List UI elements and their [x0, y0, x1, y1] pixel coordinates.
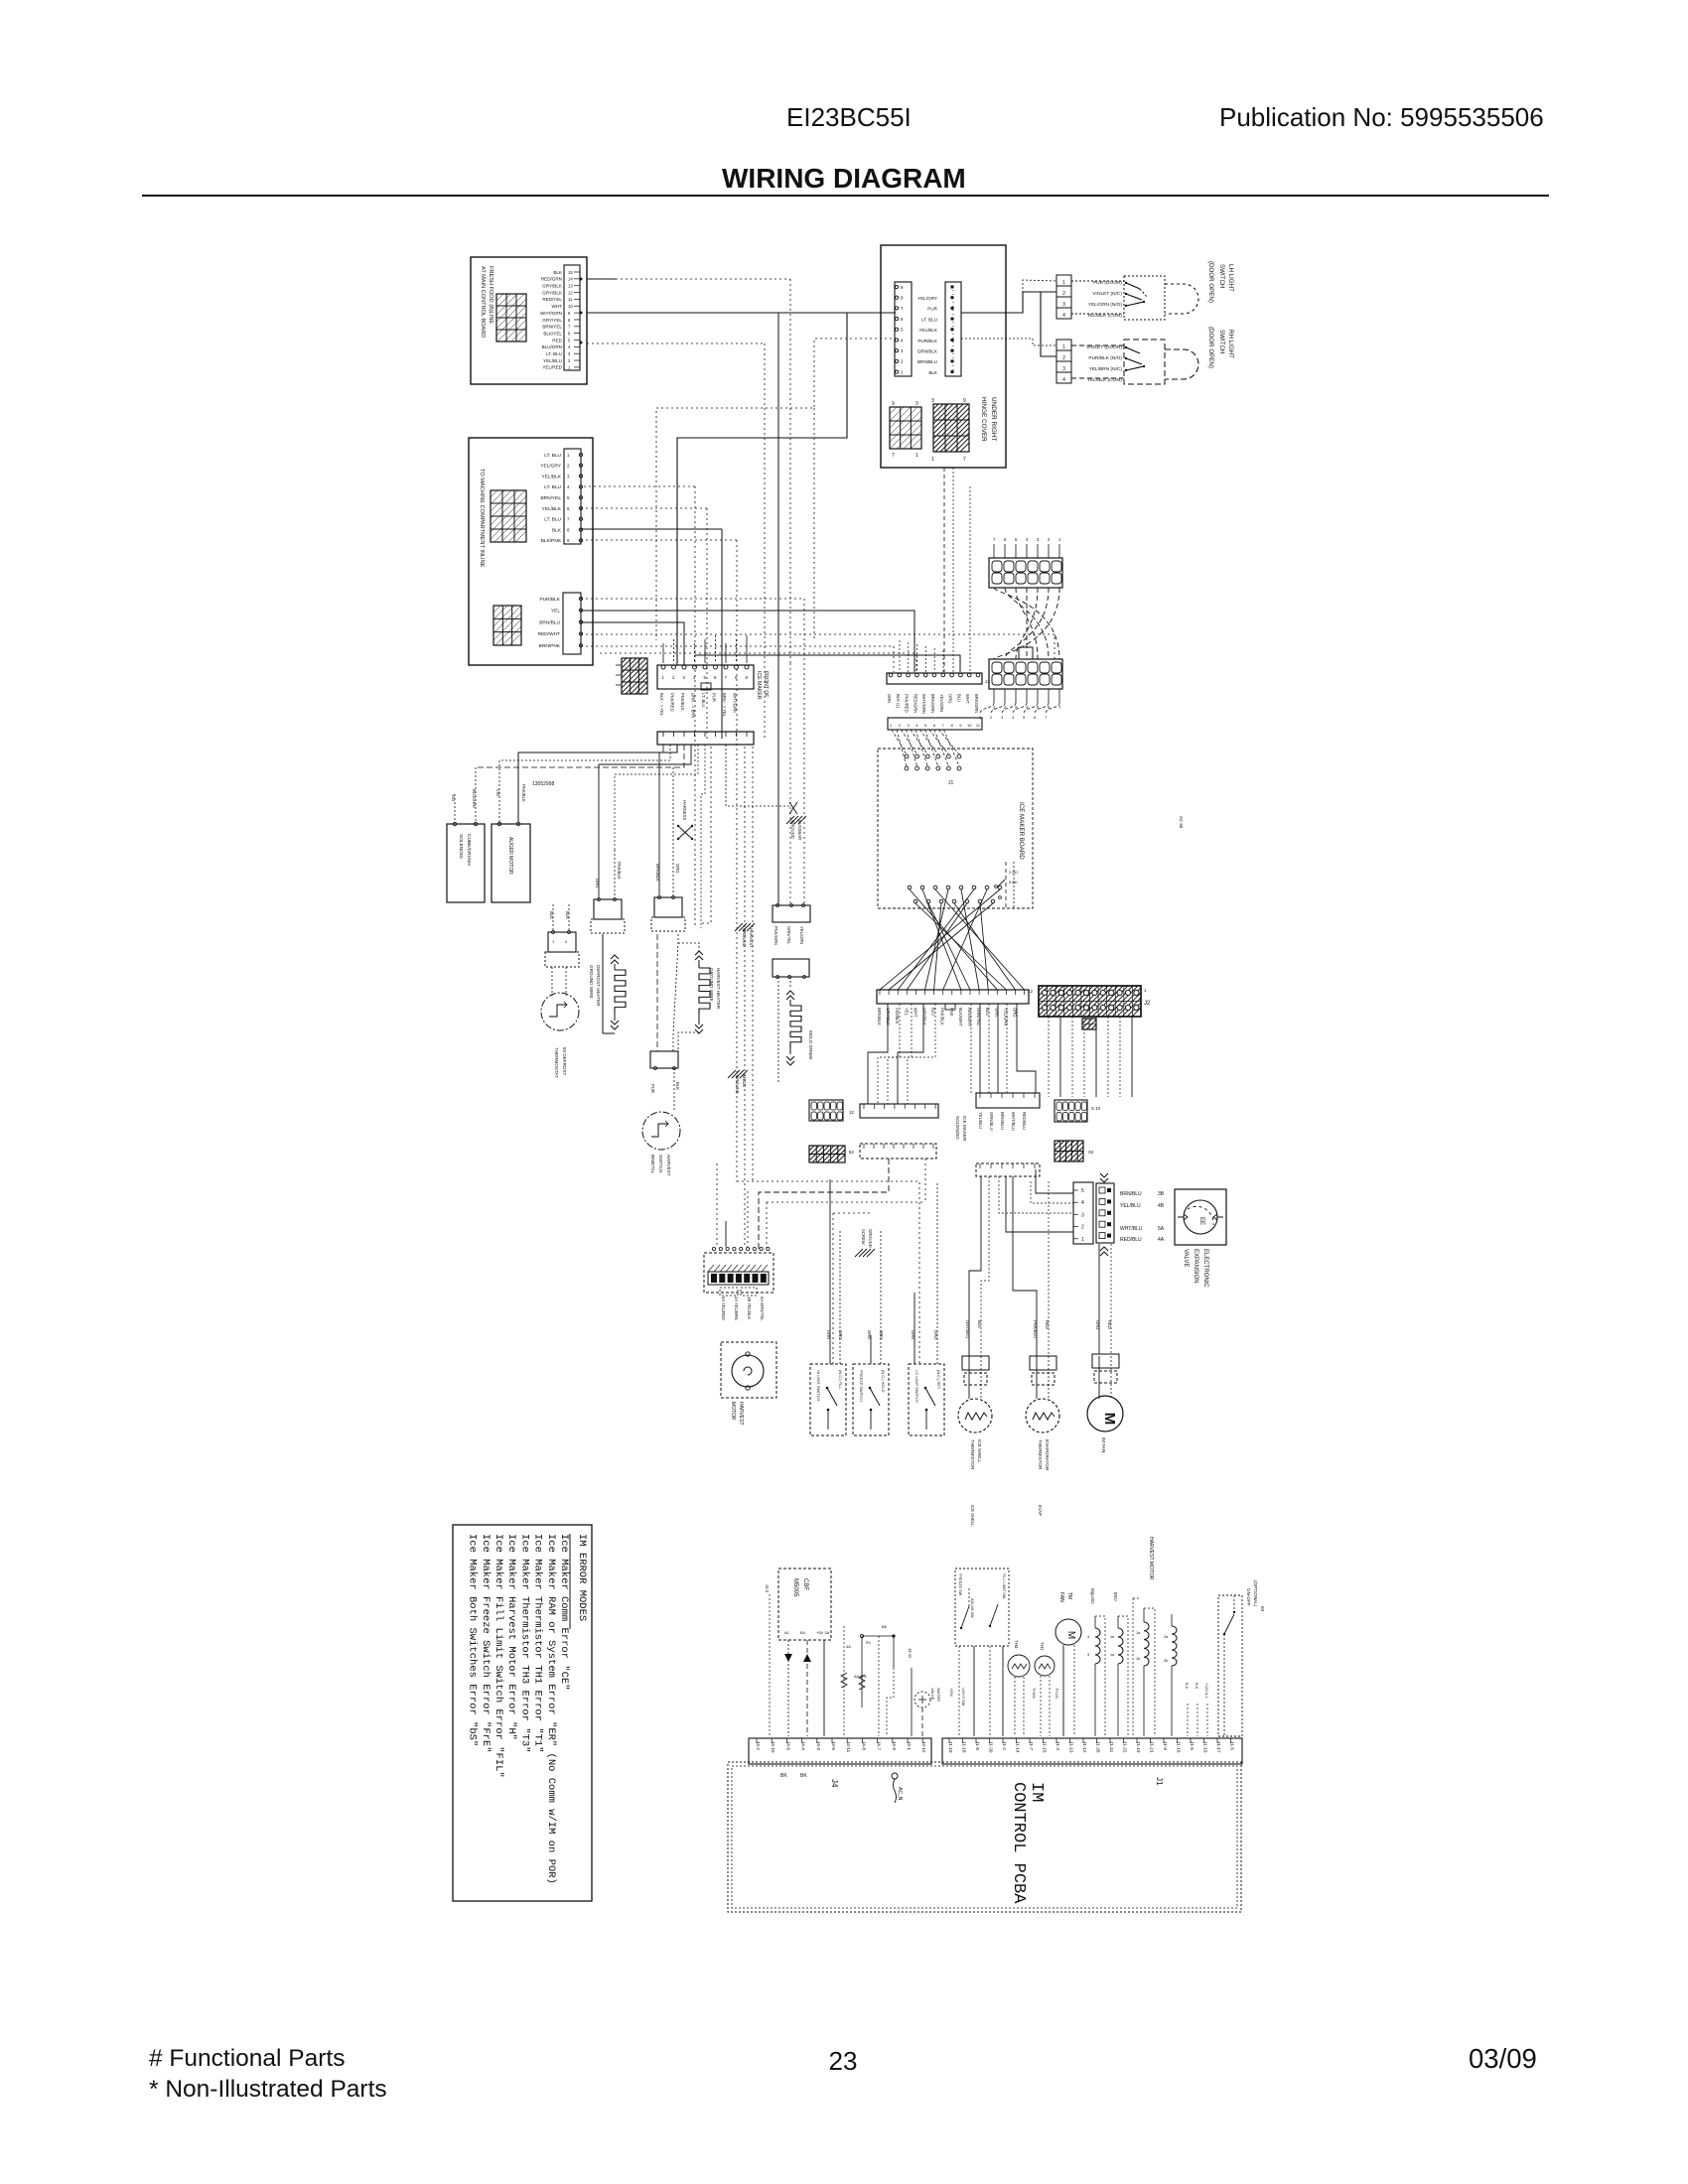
wire mid horizontal dotted y1211	[767, 1201, 925, 1203]
svg-text:GROUND: GROUND	[790, 820, 795, 839]
svg-text:J1-7: J1-7	[1029, 1741, 1034, 1750]
svg-text:TO MACHINE COMPARTMENT INLINE: TO MACHINE COMPARTMENT INLINE	[479, 469, 485, 568]
svg-text:4: 4	[1062, 313, 1065, 319]
wire trunk x716 dotted	[701, 747, 711, 923]
svg-text:GRN/BLK: GRN/BLK	[917, 349, 938, 354]
svg-text:RED: RED	[1107, 1320, 1112, 1329]
svg-text:LO LIMIT SWITCH: LO LIMIT SWITCH	[914, 1370, 919, 1403]
wire harvest motor feeds	[716, 1163, 718, 1247]
svg-text:ICE MAKER BOARD: ICE MAKER BOARD	[1018, 802, 1025, 860]
svg-text:MOLD GR500: MOLD GR500	[808, 1030, 813, 1060]
svg-text:3: 3	[1081, 1212, 1084, 1218]
ground bussbar	[789, 802, 797, 814]
svg-text:GRY/BLK: GRY/BLK	[886, 1008, 891, 1025]
svg-text:(DOOR OPEN): (DOOR OPEN)	[1207, 327, 1214, 368]
svg-text:SWITCH: SWITCH	[658, 1155, 663, 1172]
connector icon J-MC 3x4 plug	[491, 490, 526, 542]
svg-text:PUR/BLK: PUR/BLK	[917, 339, 938, 343]
svg-text:AC_N: AC_N	[897, 1787, 903, 1801]
svg-text:6A GRN/YEL: 6A GRN/YEL	[760, 1297, 765, 1321]
svg-text:J1-11: J1-11	[1109, 1741, 1114, 1753]
svg-text:Ice Maker Harvest Motor Error: Ice Maker Harvest Motor Error "H"	[505, 1534, 517, 1740]
wire solid y660 to strip I	[695, 655, 960, 672]
svg-text:TM: TM	[1066, 1592, 1072, 1599]
wire branch x784 solid down	[777, 313, 779, 905]
svg-text:RED: RED	[1045, 1320, 1050, 1329]
svg-text:BRN/BLU: BRN/BLU	[917, 359, 937, 364]
svg-text:4B: 4B	[1158, 1203, 1165, 1209]
wire to IM fan	[1098, 1244, 1100, 1354]
svg-text:4A: 4A	[1158, 1237, 1165, 1243]
svg-text:M: M	[1065, 1631, 1076, 1639]
svg-text:PNK/RED: PNK/RED	[905, 694, 910, 713]
svg-text:SWITCH: SWITCH	[1218, 264, 1225, 288]
svg-text:AUGER MOTOR: AUGER MOTOR	[507, 837, 513, 875]
svg-text:PUR: PUR	[712, 693, 717, 702]
connector HM pin row	[712, 1247, 715, 1250]
svg-text:BLU/GRN: BLU/GRN	[542, 344, 562, 349]
svg-text:ICE SHELL: ICE SHELL	[977, 1439, 982, 1463]
svg-text:HARVEST: HARVEST	[738, 1402, 744, 1426]
switch fill sensor inside board	[995, 886, 998, 888]
svg-text:J4-7: J4-7	[877, 1741, 882, 1750]
svg-text:5A YEL/RED: 5A YEL/RED	[721, 1297, 726, 1320]
svg-text:YEL/RED: YEL/RED	[542, 365, 562, 370]
svg-text:2: 2	[1062, 291, 1065, 297]
wire K drops to S3	[970, 1004, 972, 1093]
svg-text:TH1: TH1	[1040, 1642, 1045, 1651]
wire H2 to cube dashed	[476, 745, 684, 767]
wire harvest heater feed	[701, 745, 705, 928]
wire leads harvest relay	[658, 752, 660, 895]
svg-text:PNK/RED: PNK/RED	[670, 693, 675, 712]
svg-text:J1-6: J1-6	[1190, 1741, 1195, 1750]
svg-text:GRN: GRN	[867, 1330, 872, 1339]
svg-text:SOLENOID: SOLENOID	[955, 1116, 960, 1140]
connector R1 inline 12-pos upper	[989, 558, 1062, 588]
svg-text:AT MAIN CONTROL BOARD: AT MAIN CONTROL BOARD	[480, 266, 486, 338]
svg-text:PNK/BLK: PNK/BLK	[521, 784, 526, 802]
svg-text:YEL/BLU: YEL/BLU	[978, 1112, 983, 1129]
wire B2 pin4 long dotted y639	[581, 634, 1055, 659]
svg-text:YEL/BLK: YEL/BLK	[542, 474, 562, 479]
lamp LH door lamp capsule	[1165, 284, 1198, 314]
heater harvest element	[678, 943, 699, 951]
svg-text:+25V: +25V	[949, 1688, 953, 1697]
svg-text:3: 3	[1062, 302, 1065, 308]
svg-text:GRN/BLU: GRN/BLU	[989, 1112, 994, 1131]
svg-text:GROUND: GROUND	[735, 1075, 740, 1094]
svg-text:ORG: ORG	[1095, 1320, 1100, 1330]
connector R4 5x2 plug dark	[1055, 1141, 1083, 1161]
svg-text:YEL: YEL	[551, 609, 560, 614]
svg-text:(N.O.) FILL: (N.O.) FILL	[838, 1370, 843, 1390]
inductor MgU	[1095, 1628, 1100, 1664]
inductor harvest motor winding 2	[1172, 1626, 1177, 1666]
wire H2 drops left	[662, 745, 664, 752]
svg-text:PUR/BLK: PUR/BLK	[539, 597, 560, 603]
connector EEV pin box	[1073, 1182, 1093, 1244]
svg-text:J4-5: J4-5	[831, 1741, 836, 1750]
svg-text:GROUND WIRE: GROUND WIRE	[709, 968, 714, 1002]
svg-text:EEV: EEV	[1113, 1592, 1118, 1602]
svg-text:WHT/BLU: WHT/BLU	[1120, 1226, 1143, 1232]
svg-text:FAN: FAN	[1058, 1592, 1064, 1602]
svg-text:BRN/BLU: BRN/BLU	[539, 619, 560, 625]
connector icon J-FF 4x3 plug	[496, 294, 526, 341]
svg-text:BRN/BLU: BRN/BLU	[1000, 1112, 1005, 1130]
terminal block mold heater lower	[773, 959, 809, 977]
svg-text:AA15%: AA15%	[854, 1675, 867, 1679]
svg-text:5A: 5A	[1158, 1226, 1165, 1232]
wire B2 pin3 solid to H1	[581, 622, 684, 665]
switch SW-LH light switch contacts	[1124, 276, 1165, 320]
svg-text:J1-16: J1-16	[1177, 1741, 1182, 1753]
svg-text:CBF: CBF	[802, 1578, 808, 1590]
svg-text:J1-9: J1-9	[1163, 1741, 1168, 1750]
svg-text:EE: EE	[1198, 1217, 1204, 1225]
terminal strip TS1 light switch 1	[1056, 275, 1071, 286]
svg-text:EI23BC55I: EI23BC55I	[786, 102, 912, 132]
svg-text:IM: IM	[1027, 1782, 1046, 1802]
svg-text:Ice Maker Thermistor TH3 Error: Ice Maker Thermistor TH3 Error "T3"	[518, 1534, 530, 1753]
wire bussbar feeds	[726, 745, 789, 806]
wire spare leads right	[1187, 1704, 1189, 1736]
ground mold	[728, 1070, 736, 1078]
svg-text:3: 3	[1062, 366, 1065, 372]
svg-text:BLU/GRN: BLU/GRN	[472, 789, 477, 808]
connector icon P3 6-pin plug	[890, 407, 921, 449]
svg-text:J2: J2	[1144, 1001, 1151, 1007]
switch block fill freeze	[955, 1569, 1009, 1646]
wire to evap thermistor	[1013, 1176, 1037, 1356]
svg-text:ELECTRONIC: ELECTRONIC	[1202, 1249, 1208, 1288]
svg-text:A1: A1	[784, 1630, 790, 1635]
svg-text:YEL/BLU: YEL/BLU	[1120, 1203, 1141, 1209]
wire hinge cover drops to strip I	[943, 468, 945, 672]
svg-text:13052998: 13052998	[532, 781, 554, 787]
svg-text:Ice Maker Comm Error "CE": Ice Maker Comm Error "CE"	[558, 1534, 570, 1691]
thermostat harvest bimetal	[642, 1112, 680, 1150]
svg-text:YEL/BLK: YEL/BLK	[918, 328, 938, 333]
svg-text:5 BK: 5 BK	[1009, 880, 1018, 885]
svg-text:VIO: VIO	[495, 789, 500, 797]
svg-text:HINGE COVER: HINGE COVER	[980, 397, 987, 442]
svg-text:YEL/BRN (N/C): YEL/BRN (N/C)	[1089, 366, 1123, 372]
solenoid cube crush	[447, 824, 485, 902]
svg-text:VIOLET (N/C): VIOLET (N/C)	[1092, 291, 1122, 297]
svg-text:YEL: YEL	[904, 1008, 909, 1017]
wire K right end to S3	[1017, 1004, 1036, 1093]
svg-text:9: 9	[892, 401, 895, 407]
svg-text:SCREW: SCREW	[861, 1229, 866, 1245]
svg-text:BLK/PNK: BLK/PNK	[541, 538, 562, 544]
svg-text:1: 1	[1081, 1237, 1084, 1243]
svg-text:PNK: PNK	[949, 1008, 954, 1017]
connector R1 pin stubs	[993, 544, 995, 558]
svg-text:J1-20: J1-20	[989, 1741, 994, 1753]
wire leads to switches	[829, 1179, 831, 1364]
svg-text:LT. BLU: LT. BLU	[544, 484, 561, 490]
connector block P2 to machine compartment inline	[469, 438, 593, 665]
wire C pin4 dotted route	[656, 339, 897, 640]
connector HM dashed housing	[704, 1253, 774, 1293]
svg-text:YEL/BLU: YEL/BLU	[543, 358, 562, 363]
svg-text:12: 12	[1028, 989, 1033, 994]
svg-text:ASLNB SW: ASLNB SW	[970, 1598, 974, 1618]
svg-text:PUR: PUR	[927, 307, 937, 312]
svg-text:WHT/GRN: WHT/GRN	[540, 311, 562, 316]
wire H2 to auger	[518, 745, 677, 822]
svg-text:BLK (L): BLK (L)	[896, 694, 901, 709]
wire drops R2 to ice maker harness	[980, 703, 994, 714]
wire TS2 to SW-RH	[1071, 344, 1124, 346]
thermistor TH3 small	[1008, 1655, 1030, 1677]
motor TM fan symbol	[1055, 1619, 1081, 1645]
svg-text:9: 9	[963, 398, 966, 404]
svg-text:23: 23	[829, 2046, 858, 2076]
svg-text:HI LIMIT SWITCH: HI LIMIT SWITCH	[816, 1370, 821, 1401]
svg-text:FRONT OF: FRONT OF	[763, 671, 769, 697]
harvest motor symbol	[721, 1342, 776, 1398]
valve water symbol	[914, 1692, 930, 1707]
svg-text:WHT: WHT	[552, 304, 563, 309]
connector H1 front of ice maker header	[657, 665, 754, 689]
wire TS1 to SW-LH	[1071, 280, 1124, 282]
wire CBF +5V	[823, 1640, 825, 1736]
svg-text:2: 2	[1062, 355, 1065, 361]
svg-text:LT. BLU: LT. BLU	[544, 453, 561, 459]
svg-text:BRN - > YEL: BRN - > YEL	[722, 693, 727, 718]
svg-text:YEL/GRN: YEL/GRN	[799, 926, 804, 944]
svg-text:TH1/B: TH1/B	[1055, 1688, 1058, 1699]
connector P4 strip on PCBA	[749, 1738, 931, 1764]
ice maker board top pin rows	[905, 754, 909, 758]
svg-text:(DOOR OPEN): (DOOR OPEN)	[1207, 261, 1214, 303]
wire bundle R1 to R2 crossover	[994, 588, 1059, 659]
svg-text:WHT: WHT	[913, 1008, 917, 1018]
svg-text:J1-14: J1-14	[1016, 1741, 1021, 1753]
table IM error modes	[453, 1525, 592, 1901]
connector EEV mating 5-pos	[1096, 1183, 1114, 1243]
ice maker board bottom pin rows	[908, 886, 912, 889]
resistor network R10	[843, 1626, 845, 1736]
wire dotted drops to strip I pins	[899, 640, 901, 672]
wire fan board to strip K crossover	[910, 889, 997, 990]
wire trunk x700 dotted	[694, 486, 696, 928]
svg-text:EXPANSION: EXPANSION	[1193, 1249, 1198, 1284]
svg-text:GRN: GRN	[826, 1330, 831, 1339]
svg-text:J4-11: J4-11	[908, 1648, 913, 1659]
svg-text:GRY/BLK: GRY/BLK	[922, 1008, 927, 1025]
svg-text:R1: R1	[866, 1640, 872, 1645]
svg-text:+12V A-1: +12V A-1	[1204, 1683, 1208, 1699]
svg-text:(N.C.) RET: (N.C.) RET	[936, 1370, 941, 1390]
svg-text:(N.O.) HOLD: (N.O.) HOLD	[881, 1370, 886, 1393]
switch harvest limit	[909, 1364, 944, 1435]
svg-text:HARVEST HEATER: HARVEST HEATER	[716, 968, 721, 1010]
svg-text:Ice Maker RAM or System Error: Ice Maker RAM or System Error "ER" (No C…	[545, 1534, 557, 1884]
svg-text:3: 3	[1087, 1653, 1089, 1657]
svg-text:TH3: TH3	[1014, 1640, 1019, 1649]
svg-text:GRN/YEL: GRN/YEL	[786, 926, 791, 945]
terminal block mold heater upper	[773, 905, 810, 922]
svg-text:S2: S2	[1088, 1150, 1094, 1155]
ground harvest	[735, 923, 743, 931]
svg-text:UNDER RIGHT: UNDER RIGHT	[990, 397, 997, 441]
junction harness splice	[678, 826, 692, 839]
svg-text:1: 1	[1062, 344, 1065, 350]
svg-text:S 10: S 10	[1091, 1106, 1101, 1111]
svg-text:10: 10	[568, 304, 573, 309]
svg-text:2A YEL/BRN: 2A YEL/BRN	[734, 1297, 739, 1320]
svg-text:7: 7	[963, 457, 966, 463]
svg-text:1: 1	[1062, 280, 1065, 286]
svg-text:BRN/BLK: BRN/BLK	[877, 1008, 882, 1025]
board IM control PCBA outline	[728, 1762, 1241, 1912]
svg-text:VIO: VIO	[451, 794, 456, 802]
svg-text:Ice Maker Thermistor TH1 Error: Ice Maker Thermistor TH1 Error "T1"	[532, 1534, 544, 1753]
svg-text:J1-26: J1-26	[1096, 1741, 1101, 1753]
switch freeze	[853, 1364, 889, 1435]
title rule	[142, 195, 1549, 197]
svg-text:YEL/GRY: YEL/GRY	[540, 464, 562, 470]
connector R3 5x2 plug	[1055, 1100, 1087, 1122]
connector I1 ice maker harness header	[887, 673, 982, 684]
wire J4-2 lead	[769, 1594, 771, 1736]
connector R2 inline 12-pos lower	[989, 659, 1062, 689]
svg-text:SWITCH: SWITCH	[1218, 330, 1225, 353]
svg-text:ORG: ORG	[879, 1330, 884, 1340]
svg-text:M5005: M5005	[792, 1578, 798, 1597]
svg-text:TH3/B: TH3/B	[1032, 1688, 1036, 1699]
svg-text:MOLD: MOLD	[742, 1075, 747, 1087]
svg-text:ICE SHELL: ICE SHELL	[970, 1505, 975, 1527]
svg-text:J1-12: J1-12	[1082, 1741, 1087, 1753]
svg-text:J1-15: J1-15	[1203, 1741, 1208, 1753]
svg-text:ORG: ORG	[675, 864, 680, 874]
svg-text:BK: BK	[800, 1773, 807, 1779]
svg-text:J4-12: J4-12	[921, 1741, 926, 1753]
svg-text:1B YEL/BLK: 1B YEL/BLK	[747, 1297, 752, 1319]
connector S2 pin strip dashed	[860, 1144, 936, 1159]
svg-text:BIMETAL: BIMETAL	[650, 1155, 655, 1174]
connector block P1 fresh food at main control board	[471, 257, 587, 384]
svg-text:BLU: BLU	[985, 1008, 990, 1016]
svg-text:WIRING DIAGRAM: WIRING DIAGRAM	[722, 163, 966, 194]
wire stubs above H1	[662, 643, 664, 663]
svg-text:IM DEFROST: IM DEFROST	[562, 1047, 567, 1076]
svg-text:BRN/BLU: BRN/BLU	[1120, 1191, 1142, 1197]
svg-text:BLK: BLK	[675, 1082, 680, 1090]
svg-text:J4-1: J4-1	[907, 1741, 912, 1750]
svg-text:PNK/BLK: PNK/BLK	[940, 1008, 945, 1025]
svg-text:Ice Maker Both Switches Error: Ice Maker Both Switches Error "bS"	[467, 1534, 479, 1746]
heater mold element	[777, 977, 779, 1084]
svg-text:YEL/BLK: YEL/BLK	[542, 506, 562, 512]
svg-text:J4-6: J4-6	[785, 1741, 790, 1750]
svg-text:BLK - > YEL: BLK - > YEL	[659, 693, 664, 717]
svg-text:J4-2: J4-2	[756, 1741, 761, 1750]
svg-text:RED/BLU: RED/BLU	[1120, 1237, 1142, 1243]
pin strip P3b header	[945, 282, 961, 376]
svg-text:EVAP: EVAP	[1038, 1505, 1043, 1516]
svg-text:J1-4: J1-4	[1055, 1741, 1060, 1750]
connector S1 pin strip solid	[860, 1104, 938, 1118]
svg-text:ORG: ORG	[838, 1330, 843, 1340]
svg-text:J1-21: J1-21	[1150, 1741, 1155, 1753]
svg-text:Publication No: 5995535506: Publication No: 5995535506	[1219, 102, 1544, 132]
svg-text:BK: BK	[780, 1773, 787, 1779]
svg-text:VALVE: VALVE	[1183, 1249, 1189, 1267]
svg-text:LT. BLU: LT. BLU	[701, 693, 706, 708]
svg-text:J1-15: J1-15	[1043, 1741, 1048, 1753]
svg-text:GROUND: GROUND	[742, 928, 747, 947]
svg-text:J1-5: J1-5	[1230, 1741, 1235, 1750]
svg-text:BLK: BLK	[553, 270, 563, 275]
svg-text:B4: B4	[800, 1630, 806, 1635]
svg-text:EVAPORATOR: EVAPORATOR	[1045, 1439, 1050, 1471]
motor IM fan	[1087, 1396, 1123, 1432]
wire mold block feeds	[789, 663, 791, 905]
svg-text:FILL LIMIT SW: FILL LIMIT SW	[1002, 1573, 1006, 1599]
diode D2 up	[806, 1640, 808, 1736]
svg-text:15: 15	[568, 270, 573, 275]
svg-text:PUR: PUR	[650, 1084, 655, 1093]
svg-text:HARNESS: HARNESS	[682, 800, 687, 820]
ground harness screw	[855, 1249, 863, 1257]
wire mid horizontal dashed y1201	[759, 1159, 889, 1249]
svg-text:ON-OFF: ON-OFF	[1246, 1588, 1251, 1606]
svg-text:2: 2	[1081, 1225, 1084, 1231]
svg-text:RED/GRN: RED/GRN	[913, 694, 917, 713]
svg-text:B6: B6	[882, 1624, 888, 1629]
svg-text:RED/GRN: RED/GRN	[541, 277, 562, 282]
svg-text:THERMISTOR: THERMISTOR	[970, 1439, 975, 1470]
svg-text:BRN/BLK: BRN/BLK	[655, 864, 660, 882]
wire A14 dotted turning down	[587, 278, 616, 280]
svg-text:12: 12	[849, 1110, 855, 1115]
svg-text:GRY/BLK: GRY/BLK	[542, 290, 563, 295]
svg-text:J1-10: J1-10	[948, 1741, 953, 1753]
svg-text:YEL/GRN: YEL/GRN	[939, 694, 944, 712]
wire trunk x712 dotted	[706, 508, 708, 739]
svg-text:PNK/BLK: PNK/BLK	[617, 862, 622, 880]
wires thermistor leads	[968, 1356, 970, 1399]
svg-text:# Functional Parts: # Functional Parts	[149, 2045, 345, 2072]
svg-text:J4: J4	[830, 1779, 839, 1788]
wire A5 dotted down x770	[587, 342, 765, 344]
svg-text:IM ERROR MODES: IM ERROR MODES	[576, 1534, 588, 1621]
svg-text:GRY/BLK: GRY/BLK	[542, 284, 563, 289]
svg-text:CONTROL PCBA: CONTROL PCBA	[1009, 1782, 1028, 1904]
svg-text:VALVE: VALVE	[930, 1688, 935, 1701]
svg-text:M: M	[1101, 1413, 1118, 1426]
svg-text:11: 11	[568, 297, 573, 302]
heater defrost element	[602, 934, 604, 1033]
svg-text:BRN/YEL: BRN/YEL	[542, 325, 562, 330]
wire long dotted y658	[600, 653, 916, 672]
svg-text:WATER: WATER	[936, 1688, 941, 1702]
wire mid horizontal dotted y1190	[737, 1181, 919, 1364]
thermostat IM defrost	[541, 993, 579, 1030]
svg-text:PUR/BLK (N/O): PUR/BLK (N/O)	[1088, 355, 1122, 361]
svg-text:LT. BLU: LT. BLU	[544, 517, 561, 523]
wire solid y596 into strip I	[581, 611, 914, 672]
svg-text:14: 14	[568, 277, 573, 282]
svg-text:4A: 4A	[846, 1644, 851, 1649]
pin box P1 pins 15-1	[564, 265, 580, 370]
